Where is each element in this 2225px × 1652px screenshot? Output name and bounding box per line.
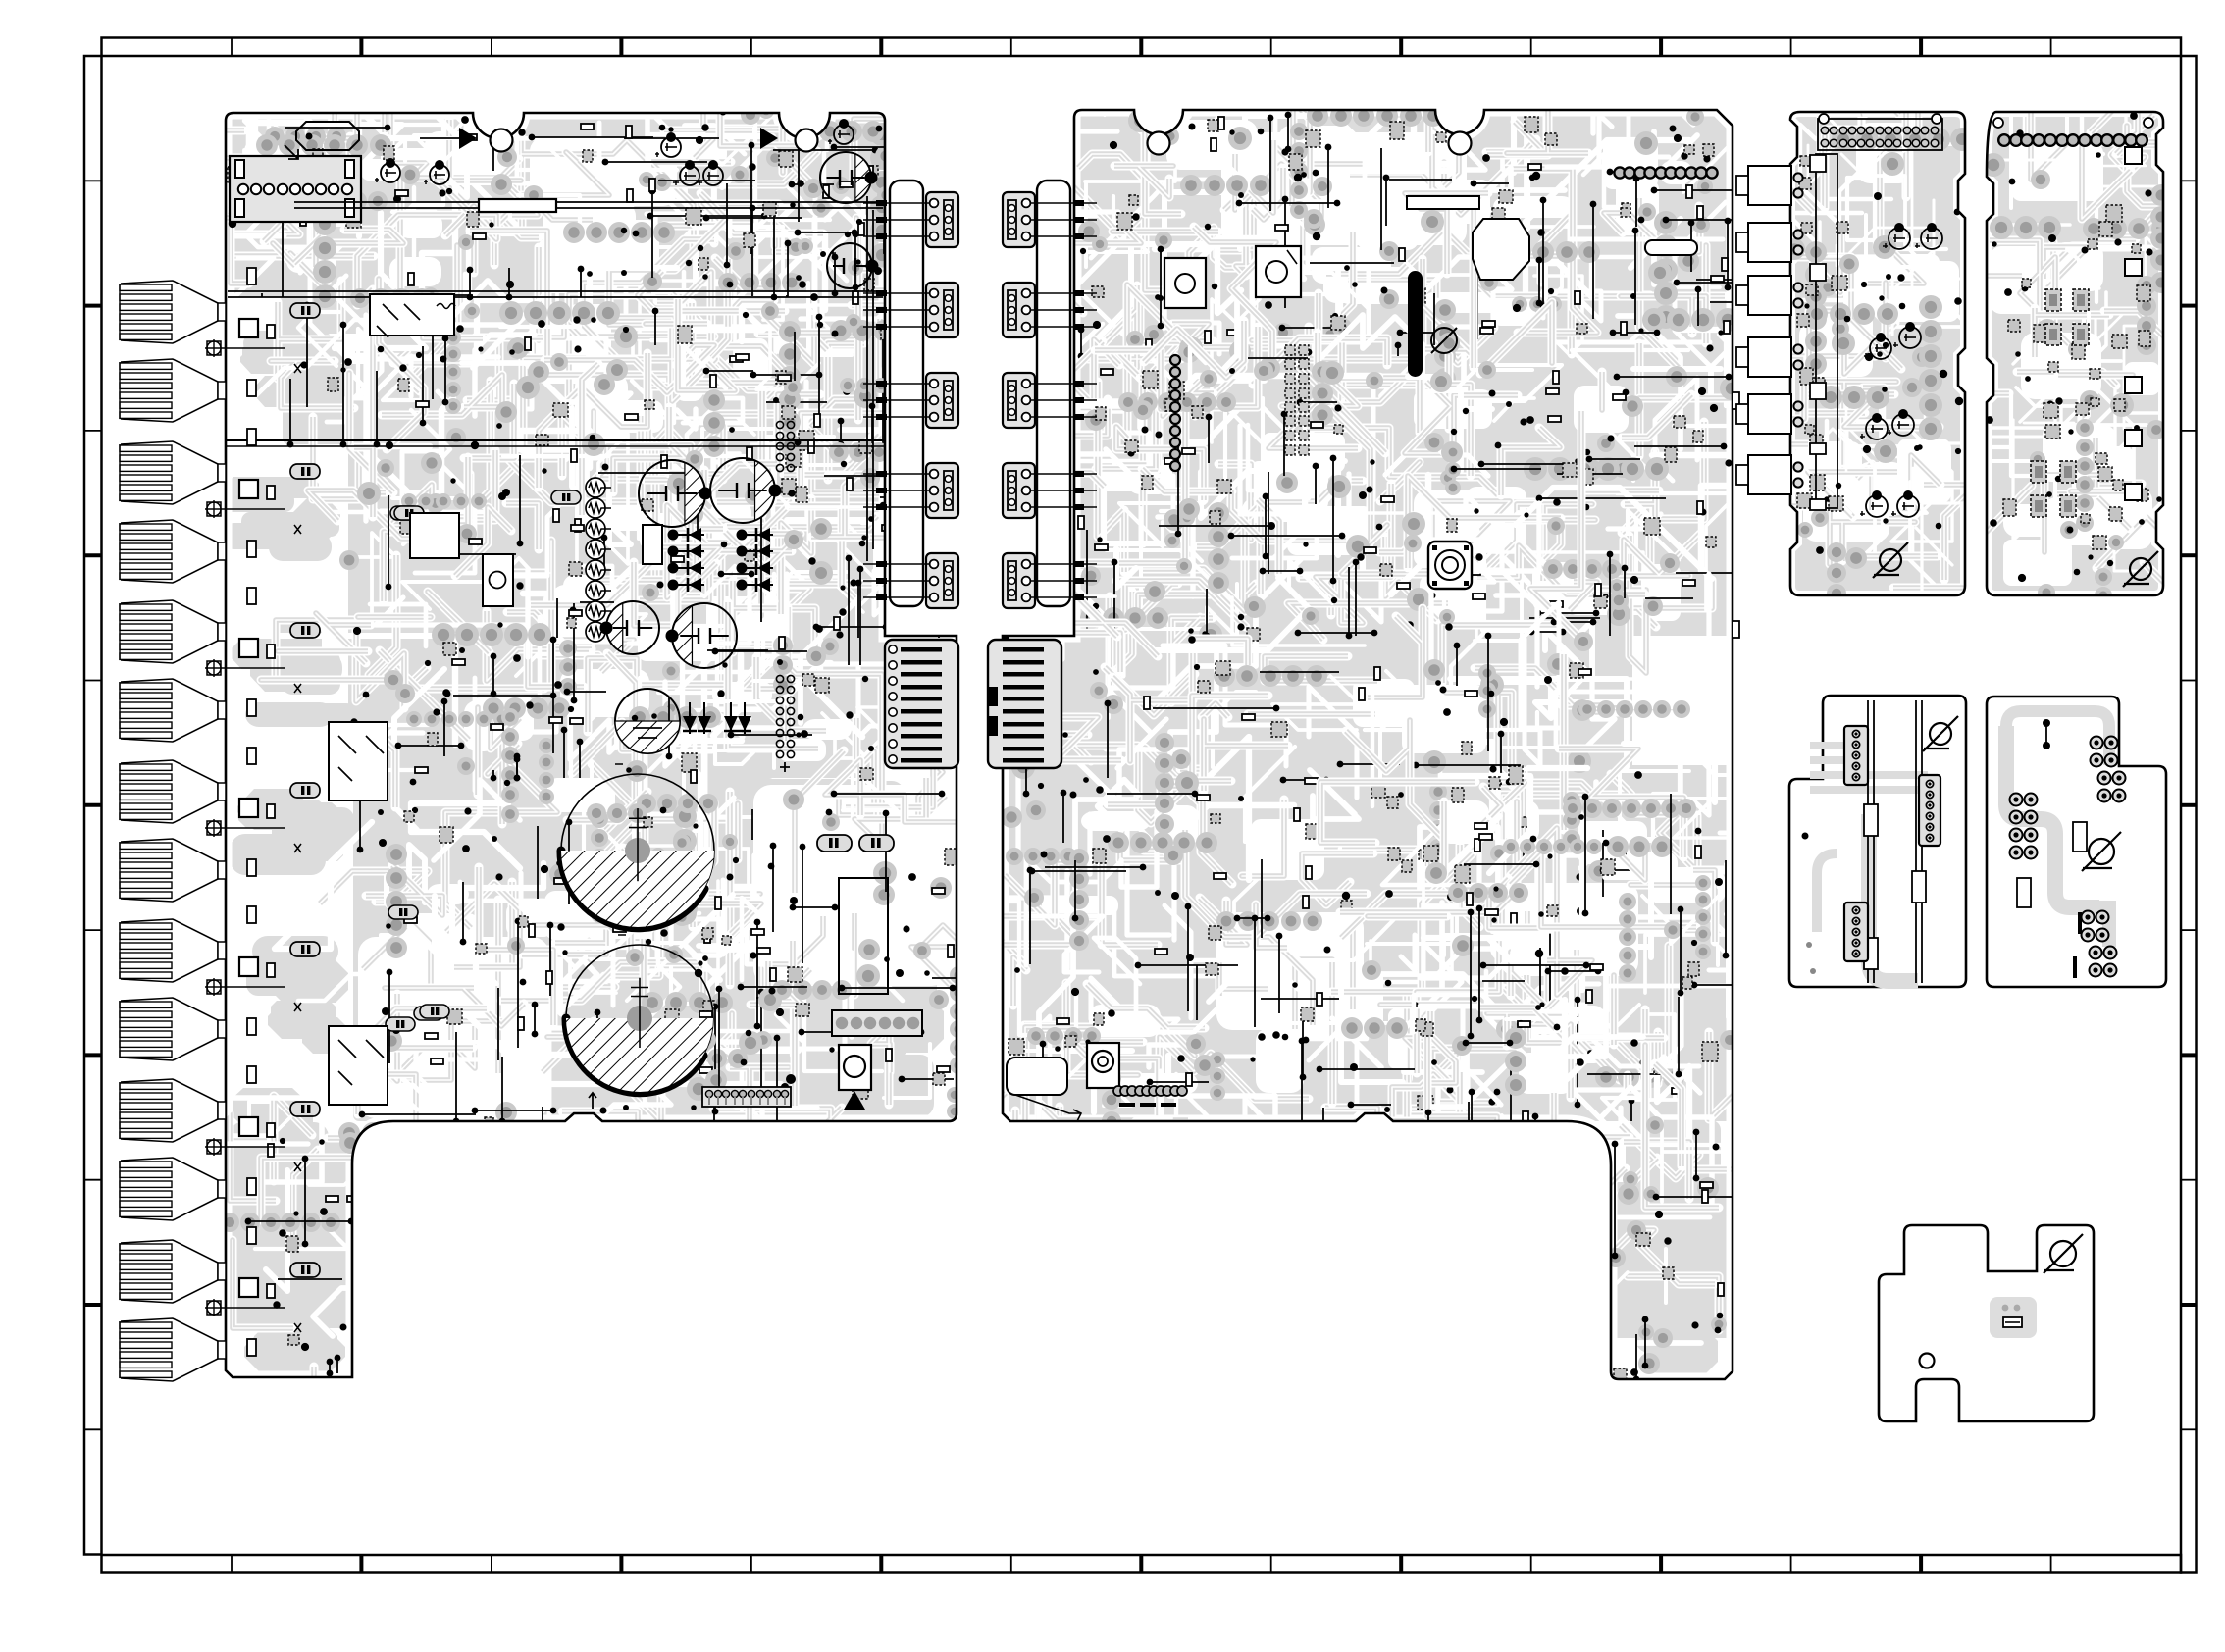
- bracket plate PCB7 outline: [1879, 1225, 2094, 1421]
- relay RY21: [1164, 258, 1206, 308]
- mounting hole H4: [1449, 132, 1472, 155]
- capacitor C103: [661, 137, 681, 157]
- bracket outline: [1816, 154, 1837, 508]
- relay RY22: [1256, 246, 1301, 297]
- direction triangle M1: [459, 128, 477, 149]
- left column components: [239, 268, 320, 1356]
- daughter board PCB6 outline: [1987, 697, 2166, 987]
- capacitor C33: [1899, 327, 1921, 348]
- transformer T1: [839, 878, 888, 994]
- card edge connectors group: [120, 281, 285, 1381]
- pad chain P62: [2010, 794, 2038, 859]
- IC IC1: [410, 513, 459, 558]
- RCA jacks J31-J36: [1736, 166, 1803, 494]
- capacitor C101: [381, 163, 400, 182]
- pin header J2: [776, 675, 794, 772]
- switch S1: [483, 554, 513, 606]
- dark dots PCB6: [2043, 719, 2050, 727]
- connector CN52: [1919, 775, 1940, 846]
- vertical resistor R120: [643, 525, 662, 564]
- PCB1 copper pour texture: [109, 0, 1057, 1410]
- capacitor C111 (hatched): [710, 458, 775, 523]
- hole PCB7: [1920, 1354, 1935, 1368]
- jack J3: [839, 1045, 871, 1110]
- mounting hole H3: [1148, 132, 1170, 155]
- no-connect symbol: [1431, 328, 1457, 353]
- bracket tabs: [1810, 155, 1826, 510]
- jumper pill J22: [1645, 240, 1697, 255]
- connector CN27 (power): [988, 640, 1061, 768]
- sheet frame bottom ruler band: [102, 1555, 2182, 1573]
- shield trace W3: [226, 439, 885, 441]
- capacitor C110 (hatched): [639, 460, 705, 527]
- ground symbol PCB6: [2089, 839, 2114, 864]
- connector CN101 top-left: [230, 156, 361, 222]
- sheet frame right ruler band: [2181, 56, 2197, 1573]
- rectifier diodes D101-D108: [668, 528, 774, 592]
- mounting hole H1: [491, 129, 513, 152]
- connector CN5 (power): [885, 640, 958, 768]
- PCB6 traces: [2006, 711, 2109, 947]
- shield can outline: [1473, 219, 1529, 280]
- capacitor C106: [834, 125, 854, 144]
- direction triangle M2: [760, 128, 778, 149]
- PCB3 copper pour texture: [1649, 0, 2105, 645]
- transistor group Q41: [2031, 289, 2089, 517]
- arrow mark: [589, 1093, 596, 1109]
- jumper bar J21: [1407, 196, 1479, 209]
- capacitor C2 (main filter): [566, 945, 713, 1092]
- capacitor C31: [1921, 228, 1942, 249]
- daughter board PCB5 outline: [1789, 696, 1966, 987]
- relay RY1: [370, 294, 455, 337]
- PCB4 copper pour texture: [1856, 0, 2225, 691]
- polarity arrow: [285, 145, 298, 159]
- connector strip CN21: [1037, 181, 1070, 606]
- resistor array RA21: [1285, 345, 1309, 455]
- capacitor C121: [859, 835, 894, 852]
- header J4: [702, 1087, 791, 1107]
- capacitor C107 (hatched): [820, 152, 871, 203]
- connector CN51: [1844, 726, 1868, 785]
- tick bars PCB6: [2078, 912, 2082, 934]
- misc dots PCB5: [1802, 833, 1809, 840]
- pad row P23: [1113, 1086, 1187, 1107]
- header CN31: [1818, 114, 1942, 150]
- connector strip CN6: [890, 181, 923, 606]
- pin header J1: [776, 421, 794, 471]
- PCB2 copper pour texture: [928, 0, 1859, 1415]
- jumper rects PCB6: [2073, 822, 2087, 852]
- pad patch PCB7: [1990, 1297, 2037, 1338]
- capacitor C34: [1866, 418, 1888, 439]
- fuse F1: [479, 199, 556, 212]
- capacitor C112 (hatched): [606, 601, 659, 654]
- capacitor C102: [430, 165, 449, 184]
- capacitor C120: [817, 835, 852, 852]
- capacitor C30: [1889, 228, 1910, 249]
- bus traces W1: [294, 201, 883, 203]
- bus traces W2: [228, 290, 883, 292]
- capacitor C104: [680, 166, 699, 185]
- resistor network R101..R108: [0, 0, 1, 1]
- pad column P22: [1170, 355, 1180, 471]
- edge tab T22: [1733, 621, 1739, 638]
- diodes D109-D112: [683, 702, 751, 734]
- rails: [1868, 700, 1922, 983]
- edge bus wires: [867, 196, 873, 561]
- relay RY3: [329, 1026, 388, 1105]
- ground symbol PCB3: [1880, 549, 1901, 571]
- heat sink outline: [296, 122, 359, 150]
- jumper plate: [1007, 1058, 1067, 1095]
- connector blocks CN7-CN11: [863, 192, 958, 608]
- capacitor C37: [1897, 495, 1919, 517]
- ground symbol PCB7: [2050, 1241, 2076, 1266]
- mounting hole H2: [796, 129, 818, 152]
- connector CN53: [1844, 903, 1868, 961]
- capacitor C36: [1866, 495, 1888, 517]
- test squares TP41-TP45: [2125, 147, 2142, 500]
- sheet frame left ruler band: [84, 56, 102, 1555]
- relay RY2: [329, 722, 388, 800]
- capacitor C32: [1870, 337, 1891, 359]
- capacitor C108: [827, 243, 872, 288]
- PCB5 traces: [1810, 746, 1928, 981]
- capacitor C113 (hatched): [672, 603, 737, 668]
- pad chain P63: [2082, 911, 2117, 977]
- sheet frame top ruler band: [102, 38, 2182, 57]
- pin pads P21: [1614, 167, 1717, 178]
- pad chain P61: [2091, 737, 2126, 802]
- connector blocks CN22-CN26: [1003, 192, 1097, 608]
- capacitor C35: [1892, 414, 1914, 436]
- header CN41 pads: [1993, 118, 2153, 146]
- terminal block TB1: [832, 1010, 922, 1036]
- capacitor C105: [703, 166, 723, 185]
- resistor array RA1: [0, 0, 1, 1]
- capacitor C114 (hatched top): [615, 689, 680, 753]
- capacitor C1 (main filter): [561, 774, 714, 927]
- ground symbol PCB4: [2130, 558, 2151, 580]
- switch S21: [1428, 542, 1472, 589]
- mounting bracket MB21: [1087, 1043, 1119, 1088]
- electrolytic bar C21: [1408, 271, 1423, 377]
- resistor ring column: [586, 478, 611, 642]
- test point dot: [786, 1074, 796, 1084]
- edge tab T21: [1733, 392, 1739, 409]
- ground symbol PCB5: [1930, 723, 1951, 745]
- rail jumpers: [1864, 804, 1878, 836]
